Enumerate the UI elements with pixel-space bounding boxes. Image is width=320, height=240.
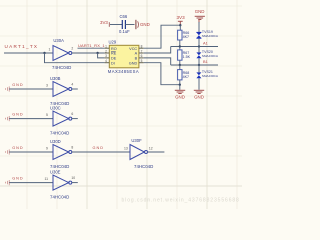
TVS diode TVS19	[196, 30, 218, 38]
svg-text:13: 13	[124, 146, 128, 150]
inverter U30B	[46, 76, 73, 106]
wire 3V3 node to R66	[179, 25, 181, 30]
wire tie to DE	[98, 53, 105, 58]
wire U30C input	[9, 118, 53, 120]
power port GND (U30B input)	[6, 86, 10, 91]
svg-text:11: 11	[45, 177, 49, 181]
svg-text:TVS20: TVS20	[202, 50, 213, 54]
svg-text:6: 6	[71, 112, 73, 116]
wire 3V3 to C66	[110, 24, 122, 26]
wire TVS19 to A row	[198, 38, 200, 46]
svg-text:blog.csdn.net.weixin_437688235: blog.csdn.net.weixin_43768823556688	[122, 197, 240, 203]
wire chip GND pin	[144, 63, 180, 85]
svg-text:U30E: U30E	[50, 169, 61, 174]
inverter U30E	[45, 169, 76, 199]
wire U30B output stub	[72, 88, 78, 90]
svg-text:R68: R68	[183, 71, 190, 75]
capacitor C66	[119, 14, 130, 34]
svg-text:DI: DI	[111, 61, 115, 65]
svg-text:MAX3485ESA: MAX3485ESA	[108, 69, 139, 74]
IC U29 MAX3485ESA	[105, 39, 144, 74]
wire R67 to B row	[179, 60, 181, 65]
svg-text:9: 9	[46, 146, 48, 150]
power port 3V3 (right)	[177, 15, 186, 25]
svg-text:74HC04D: 74HC04D	[52, 65, 71, 70]
power port GND (top of TVS column)	[195, 9, 205, 23]
svg-text:GND: GND	[93, 146, 104, 150]
svg-text:4K7: 4K7	[183, 75, 189, 79]
svg-text:TVS19: TVS19	[202, 30, 213, 34]
svg-text:RE: RE	[111, 52, 117, 56]
wire U30D output to U30F input	[72, 151, 130, 153]
pin 5	[139, 62, 144, 64]
svg-text:U30A: U30A	[53, 38, 64, 43]
svg-text:4K7: 4K7	[183, 35, 189, 39]
wire U30D input	[9, 151, 53, 153]
inverter U30F	[124, 138, 153, 169]
svg-text:74HC04D: 74HC04D	[50, 164, 69, 169]
svg-text:74HC04D: 74HC04D	[50, 195, 69, 200]
svg-text:U30C: U30C	[50, 105, 61, 110]
svg-text:SMAJ30CA: SMAJ30CA	[202, 74, 219, 78]
svg-text:3V3: 3V3	[100, 20, 108, 25]
wire U30B input	[9, 88, 53, 90]
wire TVS20 to B row	[198, 58, 200, 65]
svg-text:SMAJ30CA: SMAJ30CA	[202, 34, 219, 38]
ground symbol (right bottom)	[194, 90, 204, 93]
svg-text:TVS21: TVS21	[202, 70, 213, 74]
junction on UART1_TX wire	[43, 52, 45, 54]
junction A-R66	[179, 45, 181, 47]
wire R68 to GND node	[179, 80, 181, 85]
svg-text:GND: GND	[12, 177, 23, 181]
pin 4	[105, 62, 110, 64]
svg-text:4: 4	[71, 83, 73, 87]
svg-text:0.1uF: 0.1uF	[119, 29, 130, 34]
TVS diode TVS20	[196, 50, 218, 58]
wire U30A output to /RE	[72, 52, 105, 54]
pin 1	[105, 47, 110, 49]
wire R66 to A row	[179, 40, 181, 47]
pin 3	[105, 57, 110, 59]
svg-text:10: 10	[71, 176, 75, 180]
wire B to R68	[179, 65, 181, 70]
inverter U30A	[49, 38, 74, 70]
junction B-TVS	[198, 64, 200, 66]
svg-text:GND: GND	[175, 95, 185, 100]
svg-text:GND: GND	[12, 113, 23, 117]
resistor R68	[178, 70, 190, 80]
junction GND node	[179, 84, 181, 86]
junction B-R67	[179, 64, 181, 66]
svg-text:R67: R67	[183, 51, 190, 55]
grid lines	[0, 0, 242, 209]
wire A to R67	[179, 47, 181, 50]
wire pin B jog	[144, 58, 171, 65]
svg-text:5: 5	[141, 59, 143, 63]
wire VCC net	[144, 25, 181, 48]
pin 6	[139, 57, 144, 59]
wire GND node to symbol	[179, 85, 181, 90]
svg-text:74HC04D: 74HC04D	[134, 164, 153, 169]
svg-text:1: 1	[49, 47, 51, 51]
svg-text:8: 8	[141, 45, 143, 49]
power port GND (U30C input)	[6, 116, 10, 121]
svg-text:3V3: 3V3	[177, 15, 186, 20]
svg-text:R66: R66	[183, 31, 190, 35]
svg-text:GND: GND	[140, 22, 150, 27]
pin 8	[139, 47, 144, 49]
svg-text:RO: RO	[111, 47, 117, 51]
wire B net	[171, 64, 218, 66]
svg-text:VCC: VCC	[129, 47, 137, 51]
svg-text:6: 6	[141, 54, 143, 58]
wire U30E input	[9, 182, 53, 184]
svg-text:B1: B1	[203, 59, 208, 64]
power port GND (top, right of C66)	[136, 20, 150, 29]
wire GND to TVS19	[198, 22, 200, 32]
junction /RE-DE tie	[96, 52, 98, 54]
svg-text:C66: C66	[120, 14, 128, 19]
wire TVS21 to GND	[198, 78, 200, 90]
svg-text:GND: GND	[12, 146, 23, 150]
svg-text:2: 2	[71, 47, 73, 51]
power port GND (U30E input)	[6, 180, 10, 185]
svg-text:1.5K: 1.5K	[183, 55, 191, 59]
wire U30C output stub	[72, 118, 78, 120]
junction A-TVS	[198, 45, 200, 47]
wire C66 to GND	[125, 24, 134, 26]
svg-text:GND: GND	[194, 95, 204, 100]
ground symbol (left bottom)	[175, 90, 185, 93]
svg-text:U30F: U30F	[131, 138, 142, 143]
wire pin A jog	[144, 47, 171, 54]
wire RO	[78, 47, 105, 49]
pin 7	[139, 52, 144, 54]
svg-text:GND: GND	[129, 61, 138, 65]
svg-text:UART1_RX_1: UART1_RX_1	[78, 43, 105, 48]
svg-text:3: 3	[105, 54, 107, 58]
svg-text:U29: U29	[109, 39, 117, 44]
svg-text:UART1_TX: UART1_TX	[5, 44, 39, 49]
pin 2	[105, 52, 110, 54]
svg-text:GND: GND	[195, 9, 205, 14]
wire A net	[171, 46, 218, 48]
svg-text:8: 8	[71, 146, 73, 150]
power port 3V3 (left, at capacitor)	[100, 20, 109, 27]
svg-text:3: 3	[46, 83, 48, 87]
inverter U30D	[46, 139, 73, 169]
resistor R67	[178, 50, 191, 60]
TVS diode TVS21	[196, 70, 218, 78]
power port GND (U30D input)	[6, 149, 10, 154]
wire U30E output stub	[72, 182, 78, 184]
svg-text:A1: A1	[203, 40, 208, 45]
wire UART1_TX	[4, 52, 53, 54]
wire U30F output stub	[148, 151, 165, 153]
svg-text:74HC04D: 74HC04D	[50, 131, 69, 136]
svg-text:SMAJ30CA: SMAJ30CA	[202, 54, 219, 58]
svg-text:GND: GND	[12, 83, 23, 87]
wire branch to DI	[45, 53, 105, 63]
svg-text:2: 2	[105, 49, 107, 53]
inverter U30C	[46, 105, 73, 135]
svg-text:7: 7	[141, 49, 143, 53]
svg-text:U30B: U30B	[50, 76, 61, 81]
svg-text:1: 1	[105, 45, 107, 49]
svg-text:4: 4	[105, 59, 107, 63]
resistor R66	[178, 30, 190, 40]
wire A row to TVS20	[198, 47, 200, 53]
wire B row to TVS21	[198, 65, 200, 72]
svg-text:DE: DE	[111, 57, 117, 61]
junction 3V3 node	[179, 24, 181, 26]
svg-text:U30D: U30D	[50, 139, 61, 144]
svg-text:5: 5	[46, 113, 48, 117]
svg-text:12: 12	[149, 146, 153, 150]
